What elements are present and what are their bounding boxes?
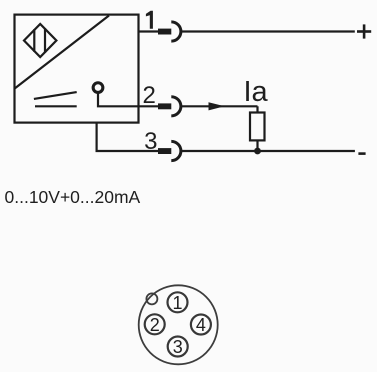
connector pin 3 circle xyxy=(168,337,188,357)
svg-text:2: 2 xyxy=(143,82,156,109)
wire down into load resistor xyxy=(256,106,258,113)
connector contact pin 3 (socket arc) xyxy=(171,141,181,160)
wire pin2 from box to plug xyxy=(139,105,160,107)
load resistor xyxy=(250,113,265,141)
wire resistor to minus rail xyxy=(256,140,258,151)
wire from output circle to box edge (pin 2 net) xyxy=(98,93,139,106)
connector pin 2 circle xyxy=(145,314,165,334)
- terminal xyxy=(358,152,365,155)
junction dot xyxy=(254,148,261,155)
sensor U1 body box xyxy=(15,15,139,123)
connector contact pin 1 (plug bar) xyxy=(158,29,171,35)
proximity sensor symbol (diamond) xyxy=(24,24,56,57)
switch contact (analog output symbol) xyxy=(34,92,77,106)
connector keying notch xyxy=(146,293,157,304)
sensor U1 body diagonal divider xyxy=(15,16,109,89)
pin label 1 xyxy=(146,11,153,29)
output drive circle xyxy=(93,83,103,93)
svg-text:2: 2 xyxy=(150,315,160,335)
connector pin 4 circle xyxy=(191,315,211,335)
svg-text:3: 3 xyxy=(173,337,183,357)
svg-text:Ia: Ia xyxy=(244,76,269,108)
connector contact pin 2 (socket arc) xyxy=(171,97,181,116)
connector contact pin 2 (plug bar) xyxy=(158,103,171,109)
wire pin3 to - terminal xyxy=(181,150,355,152)
current direction arrow xyxy=(209,102,225,110)
connector contact pin 1 (socket arc) xyxy=(171,22,181,41)
+ terminal xyxy=(357,24,371,38)
svg-text:0...10V+0...20mA: 0...10V+0...20mA xyxy=(5,187,141,207)
wire pin2 to load xyxy=(181,105,258,107)
svg-text:4: 4 xyxy=(196,315,206,335)
wire pin1 from box to plug xyxy=(139,30,160,32)
wire pin3 from box bottom xyxy=(97,123,159,152)
wire pin1 to + terminal xyxy=(181,30,355,32)
M12 connector face outer circle xyxy=(139,285,218,364)
svg-text:1: 1 xyxy=(172,293,182,313)
connector contact pin 3 (plug bar) xyxy=(158,148,171,154)
connector pin 1 circle xyxy=(168,292,188,312)
